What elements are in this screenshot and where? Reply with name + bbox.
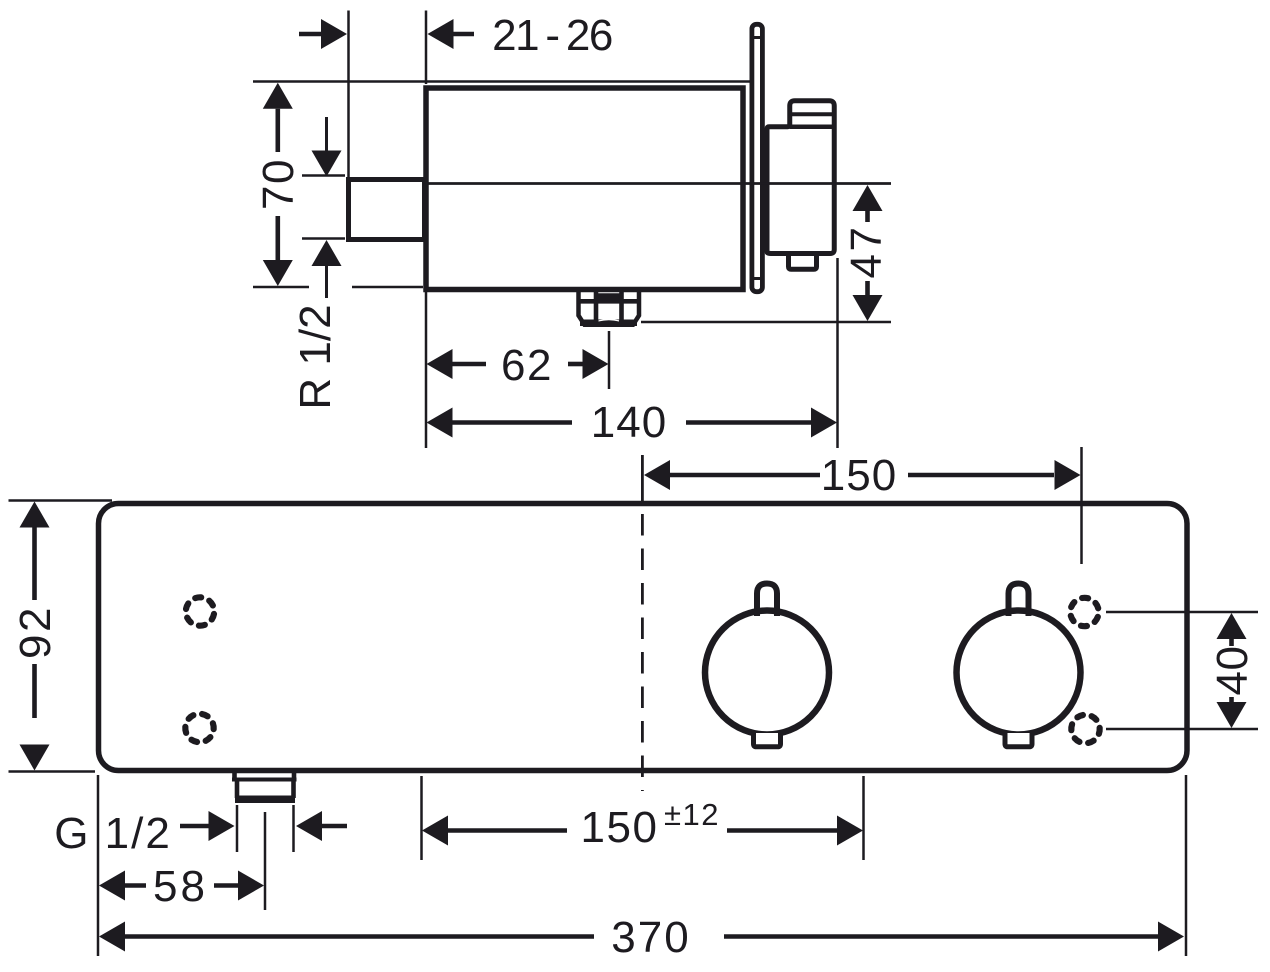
svg-text:21 - 26: 21 - 26 [492, 11, 612, 60]
svg-text:47: 47 [842, 225, 891, 279]
svg-text:58: 58 [153, 862, 208, 911]
svg-text:70: 70 [254, 158, 303, 210]
svg-text:370: 370 [611, 913, 690, 962]
svg-text:R 1/2: R 1/2 [291, 304, 340, 409]
svg-text:±12: ±12 [664, 797, 720, 832]
svg-text:140: 140 [591, 398, 667, 447]
svg-text:62: 62 [501, 341, 553, 390]
svg-text:150: 150 [821, 451, 897, 500]
svg-text:40: 40 [1208, 646, 1257, 696]
svg-text:92: 92 [11, 605, 60, 659]
svg-text:150: 150 [581, 803, 659, 852]
svg-text:G 1/2: G 1/2 [54, 809, 172, 858]
